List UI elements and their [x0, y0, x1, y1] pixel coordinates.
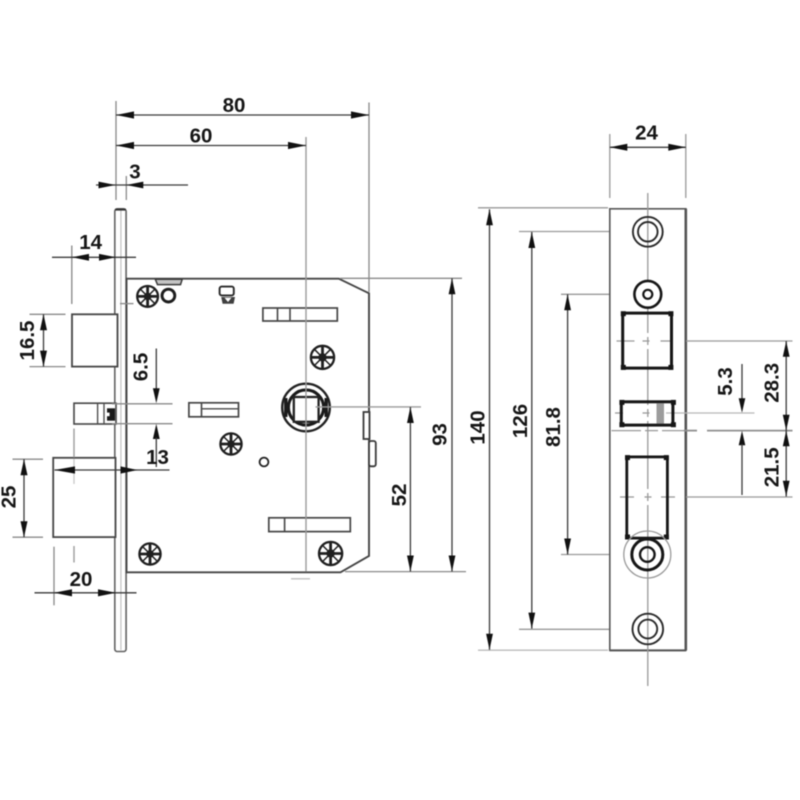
bottom screw hole [633, 614, 664, 645]
dim 13 [55, 446, 170, 474]
vertical centerline of plate [647, 193, 649, 686]
svg-text:24: 24 [635, 122, 658, 145]
roller deadbolt [624, 531, 671, 578]
horizontal centerline of spindle [316, 406, 422, 408]
latch cutout [621, 311, 674, 370]
svg-text:14: 14 [79, 231, 102, 254]
small circle below spindle [260, 458, 269, 467]
svg-text:13: 13 [146, 446, 169, 469]
dim 21.5 [760, 431, 789, 497]
clip piece on case [220, 287, 235, 304]
deadbolt cutout [625, 455, 669, 539]
ext line x=369 top [368, 103, 370, 293]
dim 3 [96, 161, 188, 189]
top slider bar [263, 308, 337, 321]
dim 24 [610, 122, 686, 199]
bottom slider bar [269, 518, 351, 532]
svg-text:25: 25 [0, 486, 21, 509]
guard block top/bottom extension lines [112, 403, 173, 405]
latch bolt [72, 314, 118, 366]
plate bottom extension [478, 649, 608, 651]
screw above spindle [311, 346, 334, 369]
screw bottom-left [139, 543, 160, 564]
svg-text:6.5: 6.5 [129, 353, 152, 382]
deadbolt centerline y=497 [620, 496, 793, 498]
ext line x=116 top [115, 101, 117, 200]
plate top extension [478, 207, 608, 209]
second screw hole [634, 281, 661, 308]
ext line x=54 bottom [53, 547, 55, 606]
right edge tab outer [369, 441, 376, 466]
screw top-left [137, 286, 158, 307]
left slider bar [189, 403, 239, 417]
bottom screw extension [519, 628, 638, 630]
screw bottom-right [319, 542, 342, 565]
small circle beside top-left screw [162, 289, 175, 302]
svg-text:93: 93 [428, 423, 451, 446]
dim 126 [509, 232, 535, 629]
ext line x=126.3 [125, 176, 127, 200]
dim 60 [116, 124, 306, 149]
dim 5.3 [714, 364, 746, 495]
bottom edge small mark [291, 578, 310, 580]
top edge tab [155, 279, 182, 284]
guard bolt block [74, 403, 116, 424]
small cutout centerline y=413 [615, 412, 755, 414]
dim 14 [52, 231, 136, 261]
dim 28.3 [760, 341, 789, 431]
top screw hole [633, 217, 663, 247]
svg-text:60: 60 [190, 124, 213, 147]
screw2 extension [561, 293, 634, 295]
svg-text:52: 52 [388, 484, 411, 507]
faceplate front view plate [610, 209, 686, 651]
dim 20 [35, 568, 137, 596]
svg-text:16.5: 16.5 [16, 321, 39, 361]
roller extension [561, 554, 647, 556]
svg-text:3: 3 [129, 161, 140, 184]
plate mid centerline y=430.6 [612, 430, 793, 432]
dim 93 [428, 278, 455, 571]
case bottom edge extension [345, 571, 466, 573]
svg-text:81.8: 81.8 [542, 407, 565, 447]
guard bolt extension line (vertical) [73, 429, 75, 563]
dim 25 [0, 459, 43, 537]
dim 52 [388, 407, 414, 572]
faceplate [115, 209, 126, 652]
case top edge extension [340, 277, 462, 279]
spindle follower [282, 384, 330, 432]
top screw extension [519, 231, 646, 233]
spring seat line through faceplate [120, 303, 134, 305]
latch centerline y=341 [617, 340, 793, 342]
dim 6.5 [129, 349, 159, 468]
svg-text:80: 80 [223, 94, 246, 117]
ext line x=71.8 [71, 246, 73, 305]
svg-text:20: 20 [70, 568, 93, 591]
dim 140 [466, 209, 493, 650]
svg-text:21.5: 21.5 [760, 447, 783, 487]
svg-text:28.3: 28.3 [760, 363, 783, 403]
svg-text:140: 140 [466, 410, 489, 444]
right edge tab inner [364, 412, 370, 439]
screw below-left of spindle [220, 433, 241, 454]
small cutout [619, 400, 676, 427]
svg-text:126: 126 [509, 404, 532, 438]
vertical centerline x=306 (60 reference) [305, 137, 307, 572]
dim 80 [116, 94, 369, 119]
dim 16.5 [16, 314, 66, 366]
lock case body [127, 279, 370, 573]
dim 81.8 [542, 294, 571, 554]
deadbolt [53, 458, 115, 537]
svg-text:5.3: 5.3 [714, 367, 737, 396]
